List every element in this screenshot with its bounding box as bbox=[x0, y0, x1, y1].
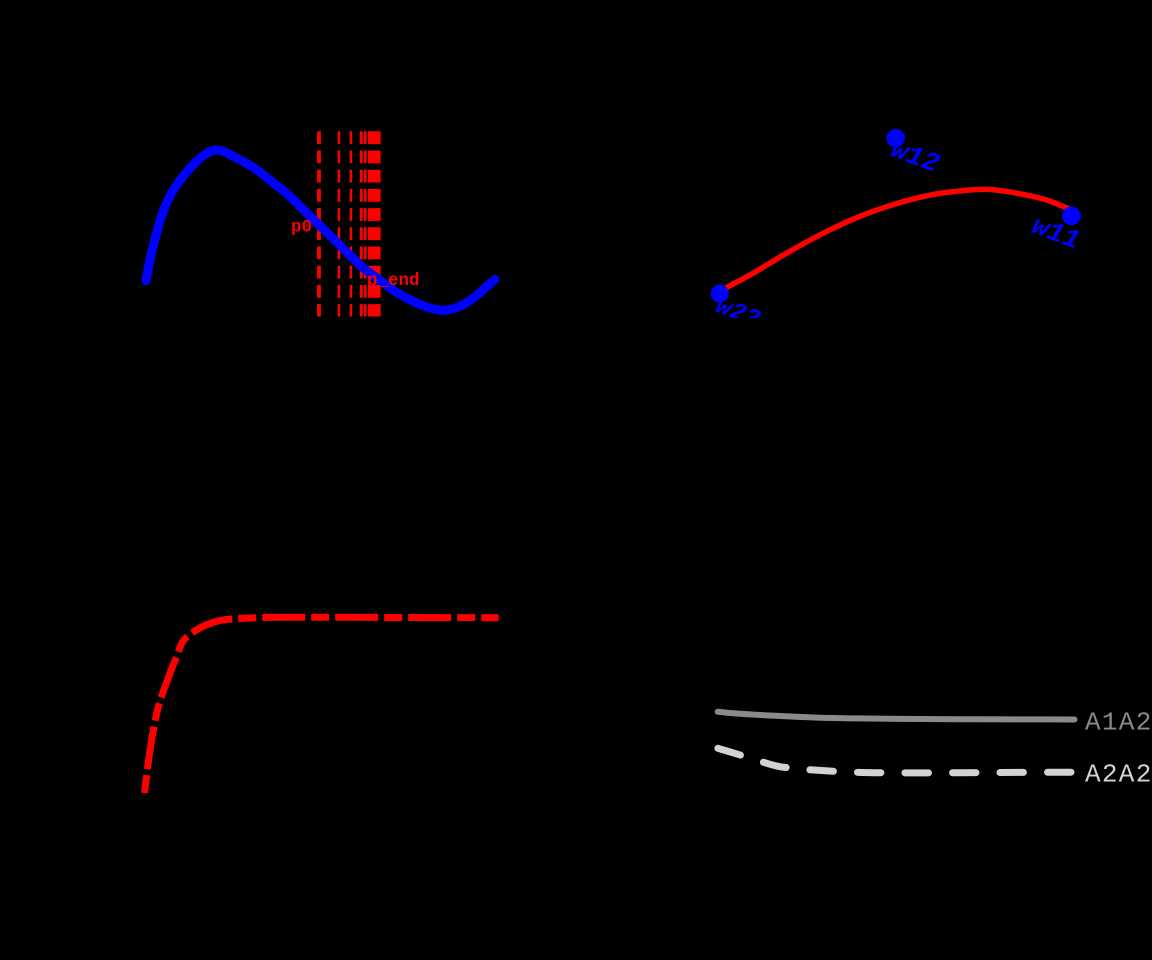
label w22 (clipped at axes bottom) bbox=[712, 291, 764, 334]
bottom-right panel: weight traces bbox=[718, 708, 1152, 790]
svg-text:A2A2: A2A2 bbox=[1085, 760, 1152, 790]
iterate line p2 bbox=[350, 131, 353, 316]
top-left panel: loss curve with gradient-descent iterate lines bbox=[146, 131, 495, 316]
red trajectory arc bbox=[722, 189, 1068, 291]
iterate line p0 bbox=[317, 131, 321, 316]
svg-text:A1A2: A1A2 bbox=[1085, 708, 1152, 738]
iterate line p1 bbox=[338, 131, 341, 316]
point w22 bbox=[711, 285, 729, 303]
top-right panel: weight trajectory bbox=[711, 129, 1084, 335]
point w12 bbox=[886, 129, 904, 147]
svg-text:p_end: p_end bbox=[367, 271, 420, 291]
iterate line converged cluster p5..p_end bbox=[368, 131, 381, 316]
red dashed learning curve bbox=[145, 617, 499, 793]
gray solid trace A1A2 bbox=[718, 712, 1075, 720]
blue loss curve bbox=[146, 150, 495, 310]
iterate line p3 bbox=[360, 131, 363, 316]
svg-text:p0: p0 bbox=[291, 218, 312, 238]
bottom-left panel: training accuracy dashed curve bbox=[145, 617, 499, 793]
iterate line p4 bbox=[364, 131, 367, 316]
lightgray dashed trace A2A2 bbox=[718, 748, 1075, 773]
point w11 bbox=[1062, 206, 1081, 225]
